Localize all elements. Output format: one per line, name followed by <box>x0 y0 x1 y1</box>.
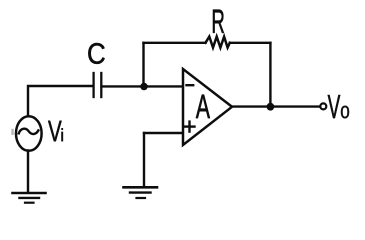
op-amp plus sign <box>185 122 195 132</box>
wire feedback left vertical <box>142 43 144 87</box>
op-amp minus sign <box>187 84 194 86</box>
label Vi (V) <box>48 121 62 141</box>
wire input top horizontal <box>28 86 93 116</box>
source Vi sine wave <box>19 129 39 134</box>
wire non-inverting input horizontal <box>144 132 182 134</box>
wire source bottom <box>27 151 29 193</box>
scan artifact dash left of source <box>11 129 14 135</box>
label R <box>213 10 224 33</box>
label Vi (i subscript) <box>61 128 63 141</box>
capacitor C plates <box>94 73 102 97</box>
terminal Vo open circle <box>320 103 326 109</box>
wire non-inverting ground vertical <box>143 133 145 187</box>
resistor R zigzag <box>206 37 230 48</box>
node junction at output <box>267 103 275 111</box>
wire feedback top left segment <box>144 42 206 44</box>
source Vi circle <box>16 116 42 151</box>
wire feedback top right segment <box>230 42 271 44</box>
ground of source <box>13 193 46 203</box>
wire capacitor to op-amp inverting input <box>102 85 183 87</box>
label Vo (V) <box>328 95 341 118</box>
ground of non-inverting input <box>124 187 158 198</box>
wire output <box>232 105 321 107</box>
node junction at inverting input <box>140 83 148 91</box>
label A <box>196 95 210 118</box>
wire feedback right vertical <box>269 43 271 107</box>
label Vo (o subscript) <box>341 106 349 119</box>
label C <box>88 43 104 64</box>
op-amp A triangle <box>183 69 232 145</box>
